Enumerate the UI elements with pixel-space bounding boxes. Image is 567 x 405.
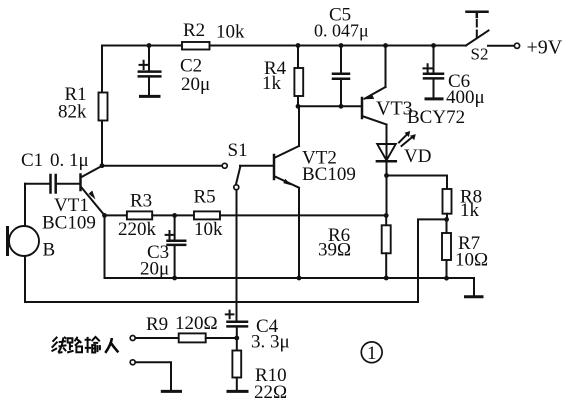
node VD cathode <box>384 173 389 178</box>
node R4 bottom / VT2 collector <box>296 104 301 109</box>
wire base line to VT3 <box>298 105 361 107</box>
resistor R8 <box>443 189 452 219</box>
svg-text:VD: VD <box>404 146 431 167</box>
wire S1 lower contact down to C4 <box>236 190 238 322</box>
ground bar below C6 <box>425 97 444 100</box>
node C6 top <box>431 43 436 48</box>
wire R3 to R5 <box>152 214 194 216</box>
node R6 bottom on rail <box>384 276 389 281</box>
resistor R3 <box>127 211 152 219</box>
svg-text:S2: S2 <box>471 45 489 64</box>
switch S1 lower contact <box>234 185 239 190</box>
switch S2 actuator T-bar <box>467 12 488 17</box>
svg-text:R9: R9 <box>146 314 168 335</box>
svg-text:R5: R5 <box>194 187 216 208</box>
node R8/R7 junction <box>444 217 449 222</box>
C6 polarity plus <box>424 64 432 72</box>
wire feedback from R8/R7 junction <box>25 219 447 302</box>
LED VD <box>377 125 396 176</box>
resistor R7 <box>442 219 451 278</box>
capacitor C2 (electrolytic to ground bar) <box>139 46 161 95</box>
resistor R10 <box>232 338 241 390</box>
wire VD node to R8 <box>387 176 448 190</box>
resistor R9 <box>179 333 206 342</box>
wire R9 to C4 node <box>206 337 237 339</box>
wire emitter down to ground rail <box>104 215 106 278</box>
svg-text:82k: 82k <box>58 102 87 123</box>
wire S1 to VT2 base <box>240 165 273 167</box>
wire R5 to R6 node <box>220 214 386 216</box>
node VT2 emitter on rail <box>297 276 302 281</box>
svg-text:10k: 10k <box>194 219 223 240</box>
wire lower input to ground <box>135 362 171 390</box>
resistor R4 <box>294 46 303 107</box>
svg-text:10Ω: 10Ω <box>455 250 488 271</box>
wire left riser from rail to R1 <box>101 46 103 93</box>
svg-text:1k: 1k <box>460 200 480 221</box>
transistor VT2 <box>274 106 299 278</box>
node C3 bottom on rail <box>172 276 177 281</box>
svg-text:20μ: 20μ <box>181 74 210 95</box>
switch S2 blade <box>466 31 489 46</box>
microphone B <box>8 184 40 302</box>
wire S2 to battery terminal <box>488 45 514 47</box>
node C3 top <box>172 213 177 218</box>
svg-text:20μ: 20μ <box>140 259 169 280</box>
node R4 top <box>296 43 301 48</box>
label line input (drawn CJK 线路输入) <box>52 337 119 353</box>
capacitor C4 (electrolytic) <box>228 322 248 338</box>
node C5 top <box>339 43 344 48</box>
switch S1 blade <box>236 166 241 185</box>
resistor R6 <box>382 216 391 278</box>
svg-text:1k: 1k <box>262 73 282 94</box>
svg-text:C1: C1 <box>21 150 43 171</box>
figure number circled 1 <box>361 342 382 364</box>
svg-text:BC109: BC109 <box>302 164 356 185</box>
svg-text:R2: R2 <box>183 20 205 41</box>
capacitor C3 (electrolytic) <box>168 215 186 278</box>
wire top supply rail <box>102 45 466 47</box>
terminal line input lower <box>130 360 135 365</box>
node C5 bottom <box>339 104 344 109</box>
svg-text:S1: S1 <box>228 140 248 161</box>
svg-text:3. 3μ: 3. 3μ <box>251 332 290 353</box>
capacitor C5 <box>333 46 349 107</box>
svg-text:R3: R3 <box>130 191 152 212</box>
wire input to R9 <box>135 337 178 339</box>
ground symbol right <box>464 295 484 298</box>
node R7 bottom on rail <box>444 276 449 281</box>
ground symbol below R10 <box>227 390 249 393</box>
resistor R2 <box>182 42 210 50</box>
switch S2 actuator dashed link <box>476 20 478 38</box>
transistor VT3 <box>362 46 387 125</box>
node C4 bottom junction <box>234 336 239 341</box>
svg-text:10k: 10k <box>216 22 245 43</box>
C3 polarity plus <box>166 231 174 239</box>
wire emitter feedback line R3 R5 <box>105 214 127 216</box>
resistor R5 <box>194 211 220 219</box>
ground symbol lower input <box>161 390 182 393</box>
LED emission arrows <box>399 131 416 146</box>
svg-text:120Ω: 120Ω <box>175 313 218 334</box>
svg-text:39Ω: 39Ω <box>318 240 351 261</box>
resistor R1 <box>99 93 108 166</box>
svg-text:0. 1μ: 0. 1μ <box>50 150 89 171</box>
svg-text:220k: 220k <box>118 219 157 240</box>
node R6 top line end <box>384 213 389 218</box>
svg-text:1: 1 <box>367 343 377 364</box>
wire node A to S1 contact <box>102 165 222 167</box>
capacitor C6 (electrolytic to ground bar) <box>424 46 443 98</box>
node VT3 emitter top <box>383 43 388 48</box>
svg-text:BCY72: BCY72 <box>407 107 465 128</box>
node VT1 emitter <box>102 213 107 218</box>
ground bar below C2 <box>139 95 161 98</box>
svg-text:BC109: BC109 <box>42 213 96 234</box>
capacitor C1 <box>25 175 81 193</box>
node C2 top <box>147 43 152 48</box>
svg-text:22Ω: 22Ω <box>254 382 287 403</box>
svg-text:400μ: 400μ <box>446 87 485 108</box>
switch S1 upper contact <box>222 163 227 168</box>
svg-text:+9V: +9V <box>527 37 563 59</box>
C4 polarity plus <box>226 311 234 319</box>
svg-text:0. 047μ: 0. 047μ <box>314 21 369 41</box>
svg-text:B: B <box>43 240 56 261</box>
C2 polarity plus <box>140 61 148 69</box>
terminal +9V open circle <box>514 43 519 48</box>
transistor VT1 <box>81 166 105 216</box>
wire VD node down to R6 line <box>386 176 388 216</box>
wire ground rail <box>105 278 475 295</box>
node A: R1 / VT1 collector / S1 wire junction <box>100 163 105 168</box>
terminal line input upper <box>130 336 135 341</box>
